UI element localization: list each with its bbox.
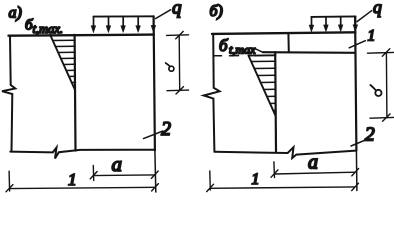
right extension line down to dimensions (fig a) (154, 150, 157, 192)
dimension l line (fig b) (207, 171, 359, 192)
layer 1 bottom line (fig b) (263, 51, 355, 54)
internal vertical line under load edge (fig a) (73, 35, 76, 151)
distributed load q top line (fig b) (311, 15, 355, 18)
label 1 (fig b) (368, 28, 376, 45)
internal vertical line under load edge (fig b) (274, 52, 277, 151)
leader line to q (fig a) (156, 10, 171, 19)
stress triangle top edge (fig b) (249, 54, 276, 56)
right extension line down to dimensions (fig b) (355, 151, 358, 191)
dimension b line (fig a) (167, 31, 189, 94)
sigma t,max label (fig a) (25, 18, 63, 37)
load arrow 1 (fig a) (91, 17, 96, 33)
stress triangle hatching (fig a) (53, 40, 76, 87)
svg-text:a: a (308, 152, 318, 174)
distributed load q top line (fig a) (94, 15, 154, 17)
wall top edge (fig a) (9, 35, 154, 36)
label b rotated (fig a) (166, 63, 174, 71)
wall top edge (fig b) (212, 32, 355, 34)
label q (fig b) (373, 0, 382, 17)
load arrow 5 (fig a) (151, 16, 156, 32)
dimension b line (fig b) (368, 49, 394, 122)
svg-text:1: 1 (368, 28, 376, 45)
dimension l line (fig a) (6, 171, 158, 192)
wall left edge with break (fig a) (2, 36, 15, 152)
layer 1 divider line (fig b) (287, 33, 289, 52)
wall right edge (fig b) (355, 17, 356, 151)
svg-text:а): а) (9, 5, 22, 22)
wall bottom edge with break (fig b) (214, 147, 356, 158)
label a dimension (fig a) (112, 152, 123, 176)
label l dimension (fig b) (252, 171, 260, 188)
label 2 (fig a) (161, 119, 171, 140)
stress triangle hatching (fig b) (251, 61, 276, 110)
load arrow 2 (fig a) (106, 17, 111, 33)
load arrow 3 (fig b) (338, 17, 343, 32)
stress triangle hypotenuse (fig b) (249, 56, 276, 116)
svg-text:2: 2 (365, 124, 375, 146)
svg-text:t,max: t,max (229, 43, 256, 57)
svg-text:a: a (112, 152, 123, 176)
load arrow 2 (fig b) (324, 17, 329, 32)
load arrow 3 (fig a) (121, 17, 126, 33)
svg-text:б): б) (210, 3, 223, 20)
leader line to q (fig b) (357, 11, 372, 22)
label a dimension (fig b) (308, 152, 318, 174)
label b) figure marker (210, 3, 223, 20)
svg-text:1: 1 (68, 170, 77, 189)
dimension a line (fig a) (90, 166, 158, 181)
svg-text:t,max.: t,max. (33, 22, 64, 36)
leader line to 2 (fig a) (144, 131, 163, 139)
load arrow 4 (fig a) (136, 16, 141, 32)
load arrow 4 (fig b) (353, 16, 358, 31)
label q (fig a) (172, 0, 182, 19)
label b rotated (fig b) (370, 85, 381, 96)
dashed leader for sigma (fig b) (214, 49, 263, 56)
wall right edge (fig a) (154, 16, 155, 150)
label 2 (fig b) (365, 124, 375, 146)
sigma t,max label (fig b) (219, 36, 256, 57)
stress triangle hypotenuse (fig a) (50, 35, 75, 90)
dimension a line (fig b) (271, 162, 359, 178)
svg-text:2: 2 (161, 119, 171, 140)
wall bottom edge with break (fig a) (10, 148, 154, 159)
leader line to 1 (fig b) (349, 41, 365, 48)
leader line to 2 (fig b) (351, 140, 367, 146)
label a) figure marker (9, 5, 22, 22)
svg-text:б: б (219, 36, 228, 55)
label l dimension (fig a) (68, 170, 77, 189)
svg-text:q: q (373, 0, 382, 17)
load arrow 1 (fig b) (309, 17, 314, 32)
wall left edge with break (fig b) (204, 34, 220, 151)
svg-text:q: q (172, 0, 182, 19)
svg-text:1: 1 (252, 171, 260, 188)
